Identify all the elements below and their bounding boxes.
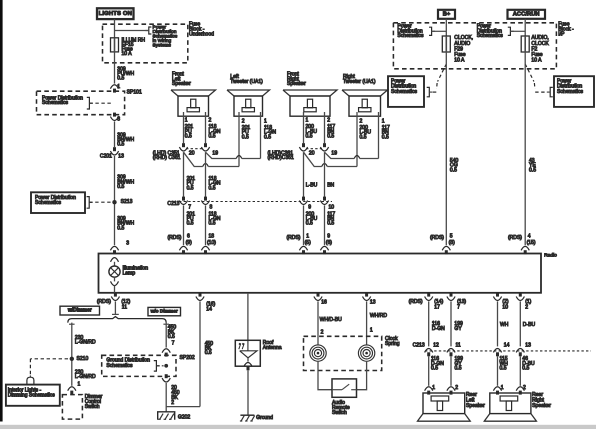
svg-text:8: 8 — [210, 204, 213, 210]
ground G202 — [158, 412, 175, 420]
svg-text:14: 14 — [206, 307, 212, 313]
svg-text:2: 2 — [209, 118, 212, 124]
wire L-BU / BN to C213 — [303, 152, 305, 197]
wire B+ to fuse F29 — [445, 19, 447, 36]
svg-text:Lamp: Lamp — [123, 271, 136, 277]
label B+ — [438, 10, 455, 19]
svg-text:0.5: 0.5 — [382, 134, 389, 140]
wires radio to C213 rear — [428, 301, 430, 346]
label w/o Dimmer — [148, 307, 181, 315]
svg-text:w/Dimmer: w/Dimmer — [67, 308, 92, 314]
svg-text:0.5: 0.5 — [529, 167, 536, 173]
svg-text:2: 2 — [525, 305, 528, 311]
svg-text:0.5: 0.5 — [264, 134, 271, 140]
wire radio to roof antenna — [247, 293, 249, 351]
svg-text:WH/RD: WH/RD — [370, 313, 387, 319]
svg-text:13: 13 — [370, 300, 376, 306]
wire from pin 11 to option split — [114, 301, 116, 314]
svg-text:0.5: 0.5 — [117, 142, 124, 148]
svg-text:10 A: 10 A — [454, 58, 465, 64]
svg-text:G202: G202 — [178, 414, 191, 420]
fuse block I/P dashed box — [393, 23, 556, 69]
roof antenna — [235, 340, 260, 366]
svg-text:0.5: 0.5 — [522, 366, 529, 372]
refer box Power Distribution Schematics (S213) — [31, 192, 85, 213]
rear right speaker — [490, 393, 531, 414]
svg-text:Radio: Radio — [544, 253, 557, 259]
svg-text:0.5: 0.5 — [306, 134, 313, 140]
svg-text:1: 1 — [78, 381, 81, 387]
svg-text:(5): (5) — [305, 240, 311, 246]
svg-text:10: 10 — [329, 204, 335, 210]
svg-text:3: 3 — [117, 116, 120, 122]
svg-text:14: 14 — [504, 343, 510, 349]
svg-text:10: 10 — [502, 305, 508, 311]
splice pack SP202 — [162, 349, 170, 353]
svg-text:10 A: 10 A — [531, 58, 542, 64]
fuse F29 CLOCK AUDIO 10A — [442, 36, 450, 52]
svg-text:11: 11 — [122, 305, 127, 311]
connector C213 (rear) pins 12 11 14 13 — [425, 350, 591, 352]
svg-text:(RHD)C351: (RHD)C351 — [268, 155, 295, 161]
svg-text:17: 17 — [434, 305, 440, 311]
svg-text:5: 5 — [450, 233, 453, 239]
wire WH/D-BU — [317, 301, 319, 344]
svg-text:4: 4 — [528, 233, 531, 239]
radio bottom pins — [114, 293, 117, 297]
fuse EF15 ILLUM RH 10A — [111, 38, 119, 52]
svg-text:LIGHTS ON: LIGHTS ON — [99, 11, 132, 17]
svg-text:18: 18 — [209, 233, 215, 239]
svg-text:D-GN: D-GN — [432, 326, 445, 332]
refer box Interior Lights - Dimming Schematics — [6, 385, 60, 406]
svg-text:C201: C201 — [100, 153, 112, 159]
svg-text:(10): (10) — [207, 240, 216, 246]
svg-text:SP101: SP101 — [127, 89, 142, 95]
svg-text:Speaker: Speaker — [287, 81, 306, 87]
svg-text:(8): (8) — [449, 240, 455, 246]
svg-text:(9): (9) — [186, 240, 192, 246]
connector C361/C351 right pins 20 19 — [306, 148, 322, 150]
svg-text:7: 7 — [457, 305, 460, 311]
front right speaker — [283, 90, 337, 96]
svg-text:0.5: 0.5 — [205, 350, 212, 356]
svg-text:GY: GY — [454, 326, 462, 332]
svg-text:10 A: 10 A — [122, 51, 133, 57]
label LIGHTS ON — [97, 8, 134, 19]
wire 450 BK 2 to ground — [165, 383, 167, 412]
wire antenna to ground — [247, 370, 249, 415]
svg-text:13: 13 — [525, 343, 531, 349]
left tweeter (UA1) — [227, 90, 270, 96]
svg-text:13: 13 — [118, 153, 124, 159]
wires C213 to rear speakers — [428, 356, 430, 386]
splice S210 — [70, 357, 74, 361]
wire 540 OG 0.5 — [445, 52, 447, 245]
svg-text:L-GN/RD: L-GN/RD — [75, 374, 96, 380]
svg-text:1: 1 — [306, 118, 309, 124]
left tweeter wires — [238, 112, 240, 167]
svg-text:Dimming Schematics: Dimming Schematics — [8, 393, 55, 399]
svg-text:2: 2 — [321, 330, 324, 336]
svg-text:0.5: 0.5 — [168, 334, 175, 340]
refer box Power Distribution Schematics (B+ side) — [388, 76, 424, 107]
svg-text:1: 1 — [382, 118, 385, 124]
svg-text:w/o Dimmer: w/o Dimmer — [150, 309, 178, 315]
svg-text:Systems: Systems — [153, 42, 172, 48]
svg-text:0.5: 0.5 — [117, 225, 124, 231]
wire LIGHTS ON to fuse EF15 — [114, 19, 116, 38]
svg-text:Switch: Switch — [332, 410, 347, 416]
wire ACC/RUN to fuse F2 — [524, 19, 526, 36]
svg-text:0.5: 0.5 — [185, 134, 192, 140]
svg-text:0.5: 0.5 — [117, 184, 124, 190]
svg-text:(RDS): (RDS) — [430, 235, 444, 241]
radio top pins — [110, 246, 118, 250]
svg-text:0.5: 0.5 — [431, 366, 438, 372]
svg-text:Underhood: Underhood — [189, 31, 214, 37]
wire 309 BN/WH 0.5 upper — [114, 121, 116, 147]
svg-text:1: 1 — [306, 233, 309, 239]
svg-text:0.5: 0.5 — [327, 221, 334, 227]
svg-text:WH: WH — [500, 322, 509, 328]
svg-text:2: 2 — [327, 118, 330, 124]
splice SP101 dashed box — [110, 85, 118, 89]
connector C351/C361 left pins 20 19 — [186, 148, 203, 150]
svg-text:Speaker: Speaker — [172, 81, 191, 87]
svg-text:0.5: 0.5 — [209, 134, 216, 140]
svg-text:Antenna: Antenna — [263, 345, 282, 351]
svg-text:S210: S210 — [77, 356, 89, 362]
svg-text:Speaker: Speaker — [466, 403, 485, 409]
svg-text:16: 16 — [321, 300, 327, 306]
refer box Power Distribution Schematics (ACC side) — [554, 76, 594, 107]
svg-text:(15): (15) — [527, 240, 536, 246]
svg-text:Tweeter (UA1): Tweeter (UA1) — [343, 79, 376, 85]
dimmer control switch — [68, 387, 76, 391]
svg-text:C213: C213 — [167, 201, 179, 207]
fuse F2 AUDIO CLOCK 10A — [521, 36, 529, 52]
svg-text:1: 1 — [370, 327, 373, 333]
svg-text:(RDS): (RDS) — [167, 235, 181, 241]
svg-text:9: 9 — [327, 233, 330, 239]
svg-text:0.5: 0.5 — [500, 366, 507, 372]
svg-text:ACC/RUN: ACC/RUN — [513, 12, 540, 18]
svg-text:0.5: 0.5 — [187, 185, 194, 191]
front left speaker — [171, 90, 216, 96]
svg-text:Schematics: Schematics — [106, 363, 133, 369]
page bottom scan strip — [0, 425, 596, 429]
svg-text:2: 2 — [360, 118, 363, 124]
svg-text:1: 1 — [264, 118, 267, 124]
svg-text:I/P: I/P — [558, 31, 565, 37]
svg-text:7: 7 — [172, 340, 175, 346]
right tweeter wires — [356, 112, 358, 167]
svg-text:Schematics: Schematics — [557, 89, 584, 95]
tweeter tap junction left group — [184, 152, 203, 166]
svg-text:9: 9 — [308, 204, 311, 210]
clock spring coil right — [358, 345, 374, 361]
svg-text:Schematics: Schematics — [477, 33, 504, 39]
svg-text:BN: BN — [327, 183, 334, 189]
svg-text:Schematics: Schematics — [391, 89, 418, 95]
svg-text:Spring: Spring — [385, 341, 400, 347]
wire 230 L-GN/RD upper — [71, 323, 73, 386]
tweeter tap junction right group — [304, 152, 322, 166]
wires clock spring to audio remote switch — [318, 362, 332, 390]
ground (antenna) — [240, 414, 254, 416]
wire WH/RD — [366, 301, 368, 344]
svg-text:0.5: 0.5 — [327, 134, 334, 140]
option split bar — [68, 317, 166, 323]
svg-text:(RDS): (RDS) — [286, 235, 300, 241]
wire 450 BK 0.5 (w/o dimmer) — [165, 323, 167, 348]
radio — [99, 254, 542, 293]
svg-text:0.5: 0.5 — [450, 167, 457, 173]
svg-text:19: 19 — [212, 151, 218, 157]
label w/Dimmer — [60, 306, 100, 315]
illumination lamp — [111, 258, 119, 262]
svg-text:0.5: 0.5 — [306, 221, 313, 227]
splice S213 — [112, 200, 116, 204]
svg-text:Schematics: Schematics — [42, 100, 69, 106]
svg-text:2: 2 — [455, 385, 458, 391]
svg-text:Tweeter (UA1): Tweeter (UA1) — [230, 79, 263, 85]
svg-text:3: 3 — [126, 240, 129, 246]
svg-text:L-GN/RD: L-GN/RD — [75, 340, 96, 346]
svg-text:0.5: 0.5 — [360, 134, 367, 140]
front right speaker wires to C361 — [303, 112, 305, 143]
svg-text:S213: S213 — [121, 199, 133, 205]
svg-text:11: 11 — [456, 343, 461, 349]
svg-text:C213: C213 — [413, 343, 425, 349]
svg-text:(RDS): (RDS) — [508, 235, 522, 241]
svg-text:0.5: 0.5 — [209, 185, 216, 191]
svg-text:(RHD) C361: (RHD) C361 — [153, 155, 181, 161]
svg-text:Schematics: Schematics — [35, 200, 62, 206]
wire 309 PU/WH 0.5 — [114, 52, 116, 84]
svg-text:0.5: 0.5 — [117, 76, 124, 82]
refer line to Power Distribution Schematics (underhood) — [115, 30, 149, 32]
clock spring dashed box — [304, 336, 382, 370]
svg-text:L-BU: L-BU — [306, 183, 318, 189]
svg-text:12: 12 — [433, 343, 439, 349]
svg-text:WH/D-BU: WH/D-BU — [320, 317, 343, 323]
right tweeter (UA1) — [342, 90, 388, 96]
svg-text:7: 7 — [188, 204, 191, 210]
svg-text:1: 1 — [185, 118, 188, 124]
svg-text:(RDS): (RDS) — [97, 299, 111, 305]
svg-text:Switch: Switch — [85, 404, 100, 410]
refer route to interior lights dimming — [30, 358, 68, 360]
svg-text:(RDS): (RDS) — [409, 299, 423, 305]
wire 450 BK 0.5 from pin 14 — [199, 301, 201, 406]
svg-text:2: 2 — [242, 118, 245, 124]
svg-text:(6): (6) — [326, 240, 332, 246]
svg-text:Schematics: Schematics — [397, 33, 424, 39]
svg-text:SP202: SP202 — [180, 355, 195, 361]
svg-text:6: 6 — [187, 233, 190, 239]
connector C213 (front speakers) pins 7 8 9 10 — [179, 201, 332, 203]
rear left speaker — [423, 393, 465, 414]
wire 309 BN/WH 0.5 middle — [114, 156, 116, 245]
wires into radio front audio pins — [183, 205, 185, 245]
front left speaker wires to C351 — [183, 112, 185, 143]
fuse block underhood dashed box — [103, 24, 188, 63]
svg-text:0.5: 0.5 — [455, 366, 462, 372]
page left edge bar — [0, 0, 3, 422]
wire 201 PU / 118 L-GN to C213 — [183, 152, 185, 197]
svg-text:0.5: 0.5 — [187, 221, 194, 227]
svg-text:0.5: 0.5 — [242, 134, 249, 140]
wire 43 YE 0.5 — [524, 52, 526, 245]
audio remote switch — [332, 379, 357, 397]
svg-text:B+: B+ — [443, 12, 451, 18]
clock spring coil left — [310, 345, 326, 361]
svg-text:19: 19 — [331, 151, 337, 157]
svg-text:Speaker: Speaker — [532, 403, 551, 409]
svg-text:D-BU: D-BU — [523, 322, 536, 328]
label ACC/RUN — [508, 10, 546, 19]
svg-text:2: 2 — [171, 400, 174, 406]
connector C201 pin 13 — [113, 147, 116, 151]
svg-text:20: 20 — [309, 151, 315, 157]
svg-text:0.5: 0.5 — [209, 221, 216, 227]
svg-text:20: 20 — [189, 151, 195, 157]
svg-text:Ground: Ground — [256, 415, 273, 421]
